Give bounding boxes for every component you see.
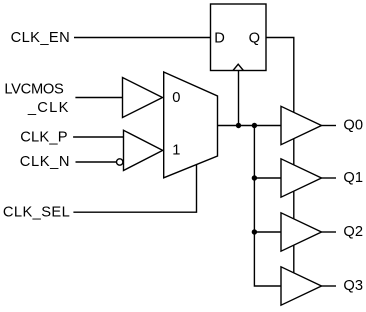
svg-text:0: 0	[172, 90, 180, 106]
buffer Q0	[281, 106, 322, 144]
wire CLK_P to diff buffer	[73, 136, 123, 138]
buffer Q3	[281, 267, 322, 305]
buffer Q2	[281, 213, 322, 251]
svg-text:D: D	[214, 31, 225, 47]
junction node Q1 tap	[252, 175, 257, 180]
svg-text:Q1: Q1	[343, 170, 363, 186]
junction node Q2 tap	[252, 229, 257, 234]
wire Q1 output	[322, 177, 337, 179]
wire CLK_EN to D input	[74, 37, 211, 39]
svg-text:Q: Q	[249, 31, 260, 47]
buffer LVCMOS_CLK input	[123, 78, 163, 118]
svg-text:Q2: Q2	[343, 224, 363, 240]
buffer differential input	[124, 130, 163, 170]
flip-flop U1 body	[211, 4, 267, 71]
svg-text:CLK_P: CLK_P	[20, 130, 68, 146]
wire Q0 output	[322, 125, 337, 127]
svg-text:_CLK: _CLK	[27, 100, 70, 116]
wire FF clock from mux output node	[238, 71, 240, 126]
flip-flop clock caret	[233, 64, 243, 70]
wire distribution bus down to Q3	[254, 126, 281, 287]
wire bus to Q2 buffer	[254, 231, 281, 233]
svg-text:1: 1	[172, 142, 180, 158]
svg-text:CLK_EN: CLK_EN	[11, 30, 71, 46]
svg-text:Q0: Q0	[343, 118, 363, 134]
inversion bubble on CLK_N	[117, 159, 123, 165]
mux M1	[164, 72, 218, 178]
wire CLK_N to inversion bubble	[76, 161, 117, 163]
wire Q3 output	[322, 285, 337, 287]
svg-text:LVCMOS: LVCMOS	[4, 81, 64, 97]
svg-text:CLK_N: CLK_N	[20, 154, 70, 170]
wire LVCMOS_CLK to buffer	[75, 97, 122, 99]
junction node at FF clock tap	[236, 123, 241, 128]
buffer Q1	[281, 159, 322, 197]
junction node at bus tap	[252, 123, 257, 128]
wire Q output / enable chain	[266, 38, 294, 274]
wire CLK_SEL to mux select	[73, 164, 196, 212]
svg-text:CLK_SEL: CLK_SEL	[3, 204, 70, 220]
svg-text:Q3: Q3	[343, 278, 363, 294]
wire mux output to Q0 buffer	[218, 125, 282, 127]
wire bus to Q1 buffer	[254, 177, 281, 179]
wire Q2 output	[322, 231, 337, 233]
